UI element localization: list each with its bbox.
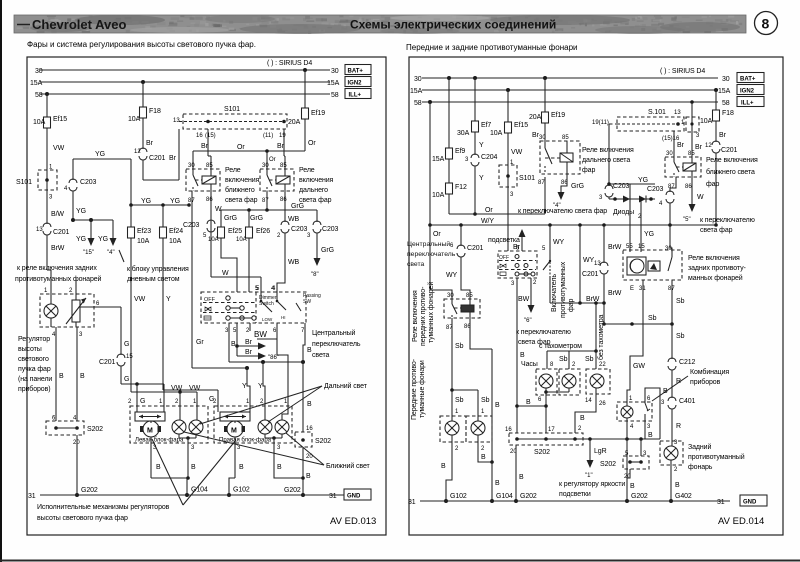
svg-text:BrW: BrW bbox=[608, 244, 622, 251]
wire WY switch pin5 feed bbox=[542, 225, 565, 252]
wire Br below F18 right bbox=[716, 123, 727, 142]
svg-text:света фар: света фар bbox=[225, 197, 258, 204]
svg-text:Br: Br bbox=[146, 140, 154, 147]
svg-text:Центральный: Центральный bbox=[312, 329, 356, 337]
right headlamp high beam lamp bbox=[275, 406, 289, 434]
wire BW arrow to *6* light switch bbox=[518, 278, 537, 324]
arrow to *4* bbox=[98, 220, 117, 256]
terminal box BAT+ right bbox=[737, 73, 764, 83]
svg-text:GND: GND bbox=[743, 500, 757, 506]
svg-text:30: 30 bbox=[447, 293, 454, 299]
left headlamp lamps ground wire bbox=[179, 434, 196, 480]
label front fog relay vertical bbox=[412, 282, 435, 346]
wire to tach lamp bbox=[559, 351, 576, 369]
relay low beam (Реле включения ближнего света фар) bbox=[186, 163, 220, 204]
wire YG drop to rear relay 55 bbox=[629, 184, 631, 252]
wire VW feed line bbox=[131, 385, 201, 394]
svg-text:к блоку управления: к блоку управления bbox=[127, 265, 189, 273]
svg-text:Ef7: Ef7 bbox=[481, 122, 491, 129]
svg-text:Реле включения: Реле включения bbox=[582, 147, 634, 154]
dimmer switch part bbox=[256, 286, 286, 322]
wire B from regulator pin3 bbox=[77, 327, 85, 421]
svg-text:IGN2: IGN2 bbox=[348, 81, 363, 87]
wire B/W bbox=[47, 190, 64, 224]
wire F18 right panel bbox=[715, 90, 717, 108]
wire Br S101-19 to relay high beam bbox=[277, 129, 285, 169]
wires tach lamps to S202-2 bbox=[575, 388, 606, 433]
svg-text:Центральный: Центральный bbox=[407, 240, 450, 248]
wire from switch pin6 to right lamp pin1 bbox=[257, 323, 288, 406]
svg-text:Схемы электрических соединений: Схемы электрических соединений bbox=[350, 18, 556, 32]
svg-text:16: 16 bbox=[306, 426, 313, 432]
fuse Ef7 30A bbox=[457, 119, 491, 137]
ground bus 31 left panel bbox=[28, 493, 344, 500]
caption central switch right bbox=[407, 240, 456, 268]
svg-text:манных фонарей: манных фонарей bbox=[688, 274, 743, 282]
tach illumination lamp bbox=[559, 369, 580, 395]
svg-text:противотуманных фонарей: противотуманных фонарей bbox=[15, 275, 102, 283]
connector C201 pin 6 bbox=[450, 243, 484, 257]
front fog relay (Реле включения передних противотуманных фонарей) bbox=[444, 293, 480, 331]
connector C201 pin 12 right bbox=[705, 141, 738, 154]
regulator indicator lamp bbox=[44, 294, 58, 327]
wire GrG to C203-3 bbox=[316, 210, 318, 222]
svg-text:B: B bbox=[231, 341, 236, 348]
header bar bbox=[14, 15, 746, 34]
svg-text:BrW: BrW bbox=[586, 296, 600, 303]
svg-text:Ef19: Ef19 bbox=[551, 112, 565, 119]
svg-text:C201: C201 bbox=[582, 271, 599, 278]
svg-text:WY: WY bbox=[583, 257, 595, 264]
wire YG below C203-4 bbox=[73, 191, 86, 220]
svg-text:G102: G102 bbox=[450, 493, 467, 500]
svg-text:подсветки: подсветки bbox=[559, 491, 591, 498]
svg-text:YG: YG bbox=[95, 151, 105, 158]
wire S101-19 down to C203-3 bbox=[608, 124, 610, 186]
annotation low beam bbox=[184, 432, 371, 470]
wire LgR arrow to dimmer rheostat bbox=[585, 439, 607, 479]
svg-text:Br: Br bbox=[245, 339, 253, 346]
wire Or feed line bbox=[193, 144, 305, 151]
fuse Ef23 10A bbox=[128, 205, 152, 245]
relay low beam caption bbox=[225, 167, 260, 204]
svg-text:WY: WY bbox=[446, 272, 458, 279]
svg-text:подсветка: подсветка bbox=[488, 237, 520, 244]
svg-text:туманных фонарей: туманных фонарей bbox=[427, 282, 435, 343]
connector S101 (left small) bbox=[16, 165, 57, 201]
svg-text:R: R bbox=[676, 378, 681, 385]
svg-text:дальнего: дальнего bbox=[299, 187, 328, 194]
svg-text:22: 22 bbox=[599, 362, 606, 368]
svg-text:Sb: Sb bbox=[676, 333, 685, 340]
svg-text:ILL+: ILL+ bbox=[741, 101, 754, 107]
svg-text:17: 17 bbox=[548, 427, 555, 433]
switch bottom pin labels bbox=[225, 328, 305, 334]
svg-text:31: 31 bbox=[329, 493, 337, 500]
svg-text:30: 30 bbox=[665, 246, 672, 252]
GND box right panel bbox=[740, 495, 767, 506]
svg-text:Реле включения: Реле включения bbox=[412, 290, 419, 342]
node on bus 58 bbox=[45, 92, 49, 96]
note to headlamp switch right bbox=[700, 217, 755, 234]
svg-text:IGN2: IGN2 bbox=[740, 89, 755, 95]
wire 30 to fuse Ef7 bbox=[474, 78, 476, 119]
svg-text:фар: фар bbox=[706, 181, 719, 188]
svg-text:"86": "86" bbox=[268, 355, 279, 361]
svg-text:Y: Y bbox=[479, 175, 484, 182]
svg-text:света: света bbox=[407, 261, 425, 268]
connector S101 (main, left panel) bbox=[173, 106, 287, 139]
svg-text:10A: 10A bbox=[432, 192, 445, 199]
svg-text:фар: фар bbox=[568, 299, 575, 312]
fuse Ef26 10A bbox=[236, 210, 270, 244]
svg-text:BrW: BrW bbox=[608, 290, 622, 297]
wire B from switch pin7 to S202 bbox=[303, 323, 312, 432]
svg-text:26: 26 bbox=[599, 401, 606, 407]
svg-text:( ) : SIRIUS D4: ( ) : SIRIUS D4 bbox=[660, 68, 705, 75]
rear fog lamp bbox=[660, 440, 683, 473]
wire Br Ef19 to relay high beam bbox=[532, 125, 545, 141]
svg-text:85: 85 bbox=[466, 293, 473, 299]
svg-text:GND: GND bbox=[347, 494, 361, 500]
svg-text:дневным светом: дневным светом bbox=[127, 276, 180, 283]
terminal box IGN2 right bbox=[737, 85, 764, 95]
svg-text:WB: WB bbox=[288, 216, 300, 223]
svg-text:Реле: Реле bbox=[299, 167, 315, 174]
note to illumination regulator bbox=[559, 481, 625, 498]
fuse F18 10A bbox=[128, 105, 161, 123]
svg-text:13: 13 bbox=[36, 227, 43, 233]
svg-text:противотуманный: противотуманный bbox=[688, 453, 745, 461]
wire G drop to left headlamp pin2 bbox=[128, 384, 145, 406]
svg-text:C203: C203 bbox=[322, 226, 339, 233]
svg-text:G202: G202 bbox=[631, 493, 648, 500]
clock illumination lamp bbox=[536, 369, 557, 395]
svg-text:B: B bbox=[59, 373, 64, 380]
svg-text:55: 55 bbox=[626, 244, 633, 250]
rear fog relay (Реле включения задних противотуманных фонарей) bbox=[623, 244, 682, 292]
svg-text:фонарь: фонарь bbox=[688, 464, 713, 471]
bus 58 right bbox=[414, 100, 730, 107]
wire VW bbox=[47, 130, 65, 170]
connector S202 small right bbox=[600, 439, 649, 480]
wire VW drop pin2 lamp bbox=[175, 392, 180, 406]
wire B from switch pin3 bbox=[229, 323, 236, 362]
wire S202-20 to ground bbox=[284, 447, 311, 497]
svg-text:86: 86 bbox=[280, 197, 287, 203]
svg-text:C401: C401 bbox=[679, 398, 696, 405]
wire WB from relay2-86 bbox=[285, 191, 300, 223]
svg-text:переключатель: переключатель bbox=[407, 251, 456, 258]
wire GrG arrow to *4* bbox=[553, 174, 584, 209]
svg-text:включения: включения bbox=[225, 177, 260, 184]
node on bus 30 bbox=[303, 68, 307, 72]
svg-text:"15": "15" bbox=[83, 250, 94, 256]
svg-text:Ef9: Ef9 bbox=[455, 148, 465, 155]
svg-text:B: B bbox=[481, 454, 486, 461]
connector C201 pin 13 right bbox=[582, 261, 608, 278]
relay high beam right caption bbox=[582, 147, 634, 174]
wire GrG arrow to *8* bbox=[311, 233, 334, 278]
wire BrW link from fog switch bbox=[550, 276, 606, 305]
svg-text:Исполнительные механизмы регул: Исполнительные механизмы регуляторов bbox=[37, 504, 170, 511]
wire G from regulator to C201-15 bbox=[121, 307, 129, 355]
wire Sb to C212 bbox=[672, 324, 685, 359]
wire line y362 to pin7 column bbox=[229, 360, 305, 364]
svg-text:Ближний свет: Ближний свет bbox=[326, 462, 371, 470]
wire tach lamps feed bbox=[539, 301, 598, 353]
svg-text:B: B bbox=[277, 464, 282, 471]
wire W feed to dimmer pin 5 bbox=[211, 270, 261, 292]
svg-text:S202: S202 bbox=[315, 438, 331, 445]
wire C201-6 from W/Y line bbox=[460, 225, 462, 246]
wire front relay 86 to ground run bbox=[470, 318, 492, 349]
svg-text:B: B bbox=[520, 352, 525, 359]
wire 30 to fuse Ef9 bbox=[448, 78, 450, 146]
svg-text:15A: 15A bbox=[718, 88, 731, 95]
svg-text:G: G bbox=[124, 341, 129, 348]
svg-text:дальнего света: дальнего света bbox=[582, 157, 630, 164]
rear fog relay caption bbox=[688, 255, 747, 282]
svg-text:Ef15: Ef15 bbox=[53, 116, 67, 123]
regulator potentiometer bbox=[66, 294, 86, 327]
connector S101 wide right bbox=[592, 109, 684, 142]
svg-text:30: 30 bbox=[539, 135, 546, 141]
svg-text:G402: G402 bbox=[675, 493, 692, 500]
svg-text:15: 15 bbox=[638, 244, 645, 250]
wire Y from Ef24 down bbox=[163, 240, 171, 390]
svg-text:светового: светового bbox=[18, 356, 49, 363]
wire BrW C201-13 chain bbox=[604, 225, 622, 263]
header logo text bbox=[17, 17, 126, 32]
svg-text:с тахометром: с тахометром bbox=[539, 343, 582, 350]
connector S101 pins 1/3 small right bbox=[681, 117, 700, 139]
svg-text:S.101: S.101 bbox=[648, 109, 666, 116]
wire WY to front fog relay 85 bbox=[446, 257, 470, 299]
note to rear fog relay bbox=[15, 265, 102, 283]
wire W/Y distribution line bbox=[428, 218, 718, 227]
svg-text:Br: Br bbox=[245, 349, 253, 356]
svg-text:30: 30 bbox=[188, 163, 195, 169]
svg-text:S101: S101 bbox=[519, 175, 535, 182]
svg-text:C201: C201 bbox=[721, 147, 738, 154]
svg-text:OFF: OFF bbox=[204, 297, 216, 303]
svg-text:B: B bbox=[495, 480, 500, 487]
svg-text:C201: C201 bbox=[53, 229, 70, 236]
wire R to rear fog lamp bbox=[672, 409, 681, 446]
svg-text:Ef19: Ef19 bbox=[311, 110, 325, 117]
svg-text:10A: 10A bbox=[33, 119, 46, 126]
svg-text:Sb: Sb bbox=[455, 397, 464, 404]
svg-text:58: 58 bbox=[35, 92, 43, 99]
connector C212 bbox=[668, 358, 696, 370]
svg-text:(11): (11) bbox=[263, 133, 273, 139]
caption central switch bbox=[312, 329, 361, 359]
svg-text:WY: WY bbox=[553, 239, 565, 246]
wire front relay 87 to fog lamps bbox=[450, 318, 489, 416]
wire fog lamp right to G104 bbox=[478, 349, 513, 503]
svg-text:S101: S101 bbox=[224, 106, 240, 113]
wire VW from Ef23 down bbox=[131, 240, 146, 392]
scan edge bottom bbox=[0, 560, 800, 562]
svg-text:85: 85 bbox=[562, 135, 569, 141]
wire W arrow to *5* bbox=[683, 177, 704, 223]
wire VW S101 to light switch bbox=[507, 187, 509, 251]
svg-text:58: 58 bbox=[331, 92, 339, 99]
svg-text:VW: VW bbox=[134, 296, 146, 303]
svg-text:к реле включения задних: к реле включения задних bbox=[17, 265, 97, 272]
wire YG line right panel bbox=[607, 177, 655, 186]
node YG branch bbox=[71, 218, 75, 222]
svg-text:G104: G104 bbox=[496, 493, 513, 500]
fuse Ef19 20A bbox=[288, 106, 325, 126]
svg-text:B: B bbox=[519, 474, 524, 481]
svg-text:31: 31 bbox=[408, 499, 416, 506]
wires combination to B-net bbox=[627, 421, 653, 439]
svg-text:C203: C203 bbox=[647, 186, 664, 193]
svg-text:10A: 10A bbox=[700, 118, 713, 125]
label front fog lamps vertical bbox=[411, 358, 426, 420]
wire YG to rear relay 15 bbox=[639, 197, 654, 252]
connector C201 pin 15 bbox=[99, 354, 133, 366]
svg-text:передних противо-: передних противо- bbox=[420, 286, 427, 346]
right headlamp motor ground wire bbox=[227, 437, 244, 497]
central light switch assembly (Центральный переключатель света) bbox=[201, 292, 306, 323]
wire VW drop pin1 lamp bbox=[193, 392, 197, 406]
note to daytime light module bbox=[119, 250, 189, 283]
svg-text:приборов): приборов) bbox=[18, 385, 50, 393]
wire to clock lamp pin 8 bbox=[547, 351, 554, 369]
svg-text:15A: 15A bbox=[30, 80, 43, 87]
svg-text:G202: G202 bbox=[520, 493, 537, 500]
svg-text:к регулятору яркости: к регулятору яркости bbox=[559, 481, 625, 488]
wire BrW bbox=[47, 235, 65, 262]
wire Br S101-16 to relay low beam 30 bbox=[674, 131, 685, 157]
diode line bbox=[609, 197, 655, 201]
passing switch part bbox=[296, 293, 321, 311]
svg-text:Регулятор: Регулятор bbox=[18, 336, 50, 343]
connector S202 (regulator) bbox=[46, 416, 103, 447]
wire switch pin3 to Sb bus bbox=[511, 278, 525, 433]
svg-text:Or: Or bbox=[269, 157, 276, 163]
wire Sb rear relay 87 down bbox=[672, 280, 685, 324]
fog switch contact part bbox=[543, 251, 551, 276]
svg-text:87: 87 bbox=[262, 198, 269, 204]
svg-text:BrW: BrW bbox=[51, 245, 65, 252]
svg-text:Y: Y bbox=[258, 383, 263, 390]
svg-text:Br: Br bbox=[719, 132, 727, 139]
wire Y to C204 bbox=[475, 134, 484, 155]
fuse F18 10A right bbox=[700, 108, 734, 125]
svg-text:Дальний свет: Дальний свет bbox=[324, 382, 368, 390]
svg-text:86: 86 bbox=[685, 184, 692, 190]
svg-text:10A: 10A bbox=[137, 238, 150, 245]
connector C203 pin 5 bbox=[183, 220, 215, 239]
svg-text:OFF: OFF bbox=[499, 255, 509, 261]
svg-text:"5": "5" bbox=[683, 217, 691, 223]
wire clock lamp to S202-17 bbox=[517, 388, 569, 433]
wire C203-4 down to rear fog relay 30 bbox=[670, 203, 672, 252]
svg-text:YG: YG bbox=[638, 177, 648, 184]
wire R to C401 bbox=[672, 370, 681, 398]
svg-text:12: 12 bbox=[134, 149, 141, 155]
svg-text:Ef15: Ef15 bbox=[514, 122, 528, 129]
svg-text:Sb: Sb bbox=[455, 343, 464, 350]
svg-text:Gr: Gr bbox=[196, 339, 204, 346]
svg-text:Or: Or bbox=[308, 140, 316, 147]
svg-text:B: B bbox=[80, 373, 85, 380]
note to light switch bottom bbox=[516, 329, 571, 346]
terminal box IGN2 bbox=[345, 77, 371, 87]
svg-text:GrG: GrG bbox=[321, 247, 334, 254]
wire G feed line to headlamp bbox=[121, 382, 164, 386]
svg-text:20A: 20A bbox=[529, 114, 542, 121]
wire GrG link relay2-87 to fuses bbox=[221, 191, 317, 222]
svg-text:Левая блок-фара: Левая блок-фара bbox=[135, 438, 184, 444]
wire C201-12 to S101 pin13 bbox=[143, 129, 179, 180]
svg-text:13: 13 bbox=[594, 261, 601, 267]
wire Or drop to relay2-30 bbox=[265, 149, 275, 169]
svg-text:HI: HI bbox=[281, 315, 286, 320]
svg-text:GrG: GrG bbox=[291, 203, 304, 210]
svg-text:30: 30 bbox=[331, 68, 339, 75]
svg-text:Передние и задние противотуман: Передние и задние противотуманные фонари bbox=[406, 43, 578, 52]
wire Br arrow podsvetka bbox=[488, 229, 526, 251]
left headlamp motor ground wire bbox=[151, 437, 189, 497]
svg-text:G: G bbox=[140, 398, 145, 405]
svg-text:Задний: Задний bbox=[688, 443, 711, 451]
wire 58 to connector S101 1/3 bbox=[690, 100, 694, 117]
svg-text:Br: Br bbox=[677, 142, 685, 149]
connector C203 pin 3 right bbox=[599, 183, 630, 201]
front fog lamp right bbox=[466, 409, 492, 452]
svg-text:GrG: GrG bbox=[250, 215, 263, 222]
arrow to *15* bbox=[76, 220, 95, 256]
svg-text:пучка фар: пучка фар bbox=[18, 366, 51, 373]
wire combo pin6 loop bbox=[645, 388, 668, 439]
svg-text:Sb: Sb bbox=[676, 298, 685, 305]
svg-text:30: 30 bbox=[722, 76, 730, 83]
svg-text:8: 8 bbox=[762, 16, 770, 32]
connector C203 pin 4 bbox=[64, 179, 97, 192]
svg-text:( ) : SIRIUS D4: ( ) : SIRIUS D4 bbox=[267, 60, 312, 67]
svg-text:включения: включения bbox=[299, 177, 334, 184]
svg-text:M: M bbox=[231, 428, 237, 435]
wire BW stub from switch pin2 bbox=[246, 323, 267, 339]
svg-text:Ef26: Ef26 bbox=[256, 228, 270, 235]
svg-text:YG: YG bbox=[76, 236, 86, 243]
terminal box ILL+ bbox=[345, 89, 371, 99]
fuse Ef25 10A bbox=[208, 210, 242, 244]
wire 30 to fuse Ef19 bbox=[304, 70, 306, 106]
svg-text:C204: C204 bbox=[481, 154, 498, 161]
wire relay high beam 87 to Or line bbox=[544, 177, 546, 214]
fuse Ef9 15A bbox=[432, 146, 465, 163]
svg-text:YG: YG bbox=[141, 198, 151, 205]
svg-text:Реле включения: Реле включения bbox=[706, 157, 758, 164]
svg-text:GrG: GrG bbox=[571, 183, 584, 190]
svg-text:GrG: GrG bbox=[224, 215, 237, 222]
wire Y to right lamp pin2 inner bbox=[258, 362, 265, 406]
bus 15A right bbox=[410, 88, 731, 95]
fuse Ef15 10A right bbox=[490, 120, 528, 137]
svg-text:F18: F18 bbox=[722, 110, 734, 117]
diode 1 bbox=[623, 196, 630, 203]
svg-text:высоты: высоты bbox=[18, 346, 42, 353]
svg-text:C201: C201 bbox=[99, 359, 116, 366]
svg-text:G: G bbox=[124, 376, 129, 383]
annotation actuators bbox=[37, 439, 236, 522]
